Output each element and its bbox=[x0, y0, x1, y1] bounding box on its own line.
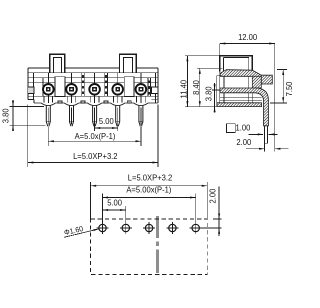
dimension 2.00 (side, pin offset) bbox=[236, 138, 288, 150]
latch tab 2 bbox=[119, 54, 136, 73]
dimension L=5.0XP+3.2 (footprint) bbox=[91, 173, 208, 219]
side view: rear wall hatched bbox=[252, 75, 261, 88]
side view: front face bbox=[217, 72, 222, 107]
screws with square slots bbox=[43, 84, 146, 95]
svg-text:5.00: 5.00 bbox=[107, 198, 122, 207]
svg-text:2.00: 2.00 bbox=[208, 188, 217, 203]
cell divider walls bbox=[43, 73, 151, 97]
footprint break line bbox=[157, 216, 159, 273]
svg-text:A=5.00x(P-1): A=5.00x(P-1) bbox=[126, 185, 171, 194]
side view: lower cavity lines bbox=[220, 93, 262, 103]
dimension 5.00 (footprint pitch) bbox=[103, 198, 126, 222]
left end wall notch bbox=[28, 87, 34, 94]
latch tab 1 bbox=[50, 54, 65, 73]
svg-text:8.40: 8.40 bbox=[192, 80, 201, 95]
dimension L=5.0XP+3.2 (front) bbox=[28, 105, 158, 168]
side view: bottom wall hatched bbox=[217, 103, 262, 107]
side view: pin tip below bend bbox=[265, 126, 268, 152]
front view: scalloped bottom edge of body bbox=[34, 103, 158, 106]
front view: connector body outline bbox=[28, 68, 158, 103]
dimension 7.50 (side right) bbox=[270, 69, 294, 103]
side view: pin horizontal blade (hatched) with 90-degree bend bbox=[220, 88, 268, 126]
pcb footprint: dashed body outline bbox=[91, 219, 208, 274]
dimension 2.00 (footprint, hole offset) bbox=[202, 186, 222, 236]
dimension A=5.00x(P-1) (footprint) bbox=[103, 185, 196, 222]
svg-text:12.00: 12.00 bbox=[238, 33, 258, 42]
svg-text:L=5.0XP+3.2: L=5.0XP+3.2 bbox=[73, 152, 117, 161]
dimension dia 1.60 hole callout with leader bbox=[63, 224, 99, 238]
svg-text:1.00: 1.00 bbox=[235, 123, 250, 132]
svg-text:2.00: 2.00 bbox=[236, 138, 251, 147]
mid notch rects on bottom edge bbox=[58, 101, 131, 103]
dimension square 1.00 (pin cross-section) bbox=[226, 123, 277, 135]
dimension 3.80 (front, pin length) bbox=[1, 100, 45, 131]
screw center lines bbox=[48, 73, 141, 103]
dimension A=5.0x(P-1) (front) bbox=[48, 127, 141, 146]
svg-text:3.80: 3.80 bbox=[204, 86, 213, 101]
svg-text:A=5.0x(P-1): A=5.0x(P-1) bbox=[75, 132, 116, 141]
dimension 5.00 (front, pitch) bbox=[95, 117, 118, 131]
dimension 12.00 (side, total depth) bbox=[220, 33, 275, 152]
side view: upper cavity walls bbox=[224, 76, 249, 88]
pin collar notches bbox=[44, 96, 145, 102]
svg-text:11.40: 11.40 bbox=[179, 79, 188, 98]
dimension 3.80 (side left) bbox=[204, 83, 220, 113]
right end wall notch bbox=[151, 87, 158, 94]
solder pins (front view) bbox=[46, 106, 143, 127]
pcb footprint: drill holes with center crosses bbox=[97, 222, 202, 234]
svg-text:5.00: 5.00 bbox=[99, 117, 114, 126]
side view: rear tab (hatched) bbox=[261, 75, 272, 84]
svg-text:7.50: 7.50 bbox=[285, 81, 294, 96]
dimension 11.40 (side left) bbox=[179, 56, 220, 107]
side view: latch tab bbox=[220, 56, 253, 72]
dimension 8.40 (side left) bbox=[192, 68, 223, 106]
svg-text:3.80: 3.80 bbox=[1, 108, 10, 123]
svg-text:L=5.0XP+3.2: L=5.0XP+3.2 bbox=[128, 173, 172, 182]
side view: hatched top wall of housing bbox=[220, 70, 261, 77]
